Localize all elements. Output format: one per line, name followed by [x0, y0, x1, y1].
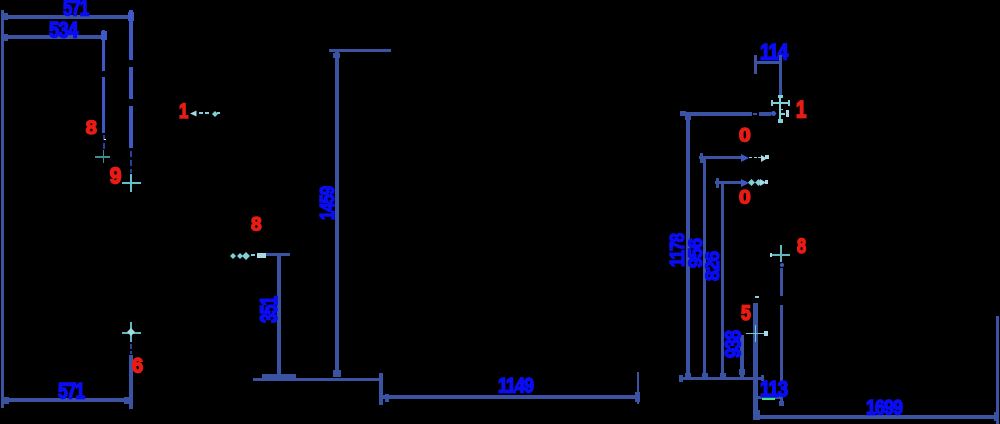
line 2: [699, 156, 741, 159]
bottom dim line 571: [2, 398, 130, 402]
red digit 1 with leader (left middle): [179, 101, 188, 122]
pale arrow block: [257, 253, 266, 258]
label 534: [49, 20, 77, 42]
short dim vertical: [277, 255, 281, 375]
right tick bottom 571: [124, 397, 133, 405]
bottom-left star marker: [122, 332, 141, 334]
royal dot below cross: [780, 263, 784, 267]
red digit 6 (bottom left): [132, 356, 143, 377]
small diamond: [212, 111, 218, 117]
rotated label 956: [687, 239, 706, 268]
dim 113: [757, 396, 781, 399]
dashed continuation of A: [103, 135, 105, 140]
red 1 (right): [796, 98, 806, 122]
royal dot terminator of line 1: [771, 111, 776, 116]
step vertical: [379, 373, 383, 405]
red 0 lower: [739, 188, 751, 207]
big cross marker (right top): [779, 95, 781, 123]
v1: [686, 115, 690, 378]
lower-right cross: [746, 333, 766, 335]
baseline: [679, 377, 764, 380]
rotated label 826: [704, 252, 723, 281]
rotated label 938: [723, 331, 745, 358]
line 1: [680, 112, 752, 116]
extension line A (right end of 534, royal blue): [102, 30, 106, 71]
left tick 1149: [385, 394, 389, 402]
vertical from 114 down to cross: [779, 74, 783, 97]
dimension line 571 top: [2, 15, 131, 19]
tick below top line: [333, 53, 340, 59]
thick vertical R5: [753, 303, 758, 420]
v3: [721, 184, 724, 378]
tall vertical dim line: [335, 50, 340, 375]
red digit 8 (mid left): [251, 215, 262, 234]
label 571 bottom: [58, 381, 84, 403]
red digit 9 (shield): [110, 165, 122, 188]
dashes below star: [130, 344, 132, 349]
rotated label 1459: [318, 187, 339, 220]
dashed continuation of B: [130, 151, 132, 157]
label 1149: [498, 376, 533, 397]
white speck: [104, 139, 106, 141]
middle-right cross: [771, 254, 790, 256]
rotated label 351: [258, 297, 282, 323]
extension line B (right end of 571, royal blue): [129, 10, 132, 60]
red 8 right: [797, 236, 806, 257]
right dashed vertical x781: [780, 268, 783, 296]
v4: [740, 335, 743, 378]
cross marker 1 (teal): [95, 156, 110, 158]
tick left end dim 571 top: [1, 13, 8, 20]
dim 114: [760, 42, 787, 64]
cyan dashes: [199, 112, 203, 114]
tick left end dim 571 bottom: [1, 397, 9, 404]
red 0 upper: [739, 126, 751, 145]
short dim bottom tick: [262, 374, 296, 378]
line 3: [715, 181, 746, 184]
rotated label 1178: [668, 234, 688, 267]
bottom tick tall dim: [333, 370, 341, 376]
tick nub on B: [128, 12, 134, 21]
pale arrowhead pointing left: [190, 110, 197, 117]
v2: [703, 159, 706, 378]
top horizontal line: [329, 49, 391, 52]
dim line 1149: [381, 395, 638, 399]
red 5: [741, 303, 751, 324]
cross marker 2 (bright cyan): [122, 182, 141, 184]
connector line bottom middle: [253, 378, 382, 381]
left extension line (vertical, far left): [1, 10, 4, 408]
bottom dim 1699: [757, 415, 997, 419]
label 571 top: [63, 0, 88, 20]
cyan leader to short dim: [230, 253, 236, 259]
right extension 1149: [637, 372, 639, 404]
short dim (351): top tick: [266, 253, 290, 256]
dimension line 534: [2, 35, 104, 39]
bottom-left extension vertical: [129, 355, 133, 410]
tick nub on A: [101, 31, 107, 40]
red digit 8 (left upper): [86, 118, 97, 138]
tick left end dim 534: [1, 34, 8, 41]
